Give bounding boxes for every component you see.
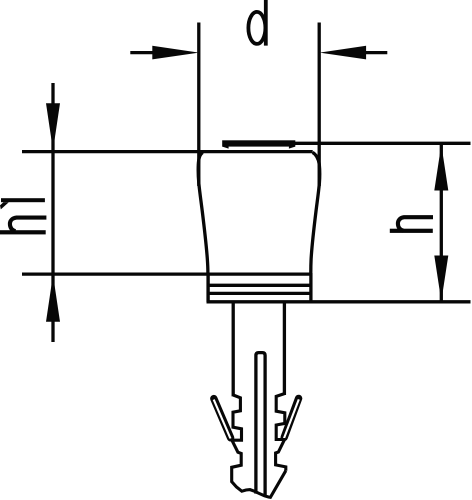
label d (stem)	[264, 0, 268, 46]
label h right (stem)	[390, 229, 433, 233]
extension line h top	[295, 142, 471, 145]
shaft left edge	[232, 302, 235, 396]
arrowhead h bottom	[434, 256, 448, 302]
central expansion slot	[256, 353, 265, 497]
collar left edge	[206, 273, 209, 302]
expansion wing blade right	[284, 398, 298, 437]
collar rib line 1	[207, 284, 313, 287]
cap body left profile	[198, 152, 208, 273]
label h1 (digit 1 rotated)	[0, 198, 45, 209]
anchor body right outline with barb notches	[276, 394, 286, 471]
extension line h1 top / cap top edge	[22, 150, 313, 153]
arrowhead h top	[434, 145, 448, 191]
dimension line h	[440, 144, 443, 301]
extension line h1 bottom / collar top edge	[22, 272, 311, 275]
collar right edge	[309, 273, 312, 302]
label h right (arch)	[398, 217, 433, 231]
arrowhead h1 bottom	[46, 275, 60, 322]
cap body right profile	[311, 152, 320, 273]
collar rib line 2	[207, 292, 313, 295]
extension line d left	[197, 23, 200, 187]
dimension line d left tail	[130, 51, 155, 54]
dimension line h1	[51, 83, 54, 342]
label d (dimension letter d, bowl)	[248, 12, 265, 44]
collar bottom edge / extension line h bottom	[207, 300, 471, 303]
label h1 (letter h rotated, arch)	[10, 218, 47, 232]
dimension line d right tail	[364, 51, 387, 54]
expansion wing blade left	[214, 399, 231, 438]
anchor body left outline with barb notches and bottom	[232, 395, 286, 497]
shaft right edge	[283, 302, 286, 395]
cap top disc	[222, 140, 295, 148]
arrowhead d left	[152, 46, 199, 60]
arrowhead d right	[320, 46, 367, 60]
arrowhead h1 top	[46, 103, 60, 150]
extension line d right	[318, 23, 321, 187]
label h1 (letter h rotated, stem)	[0, 230, 46, 234]
